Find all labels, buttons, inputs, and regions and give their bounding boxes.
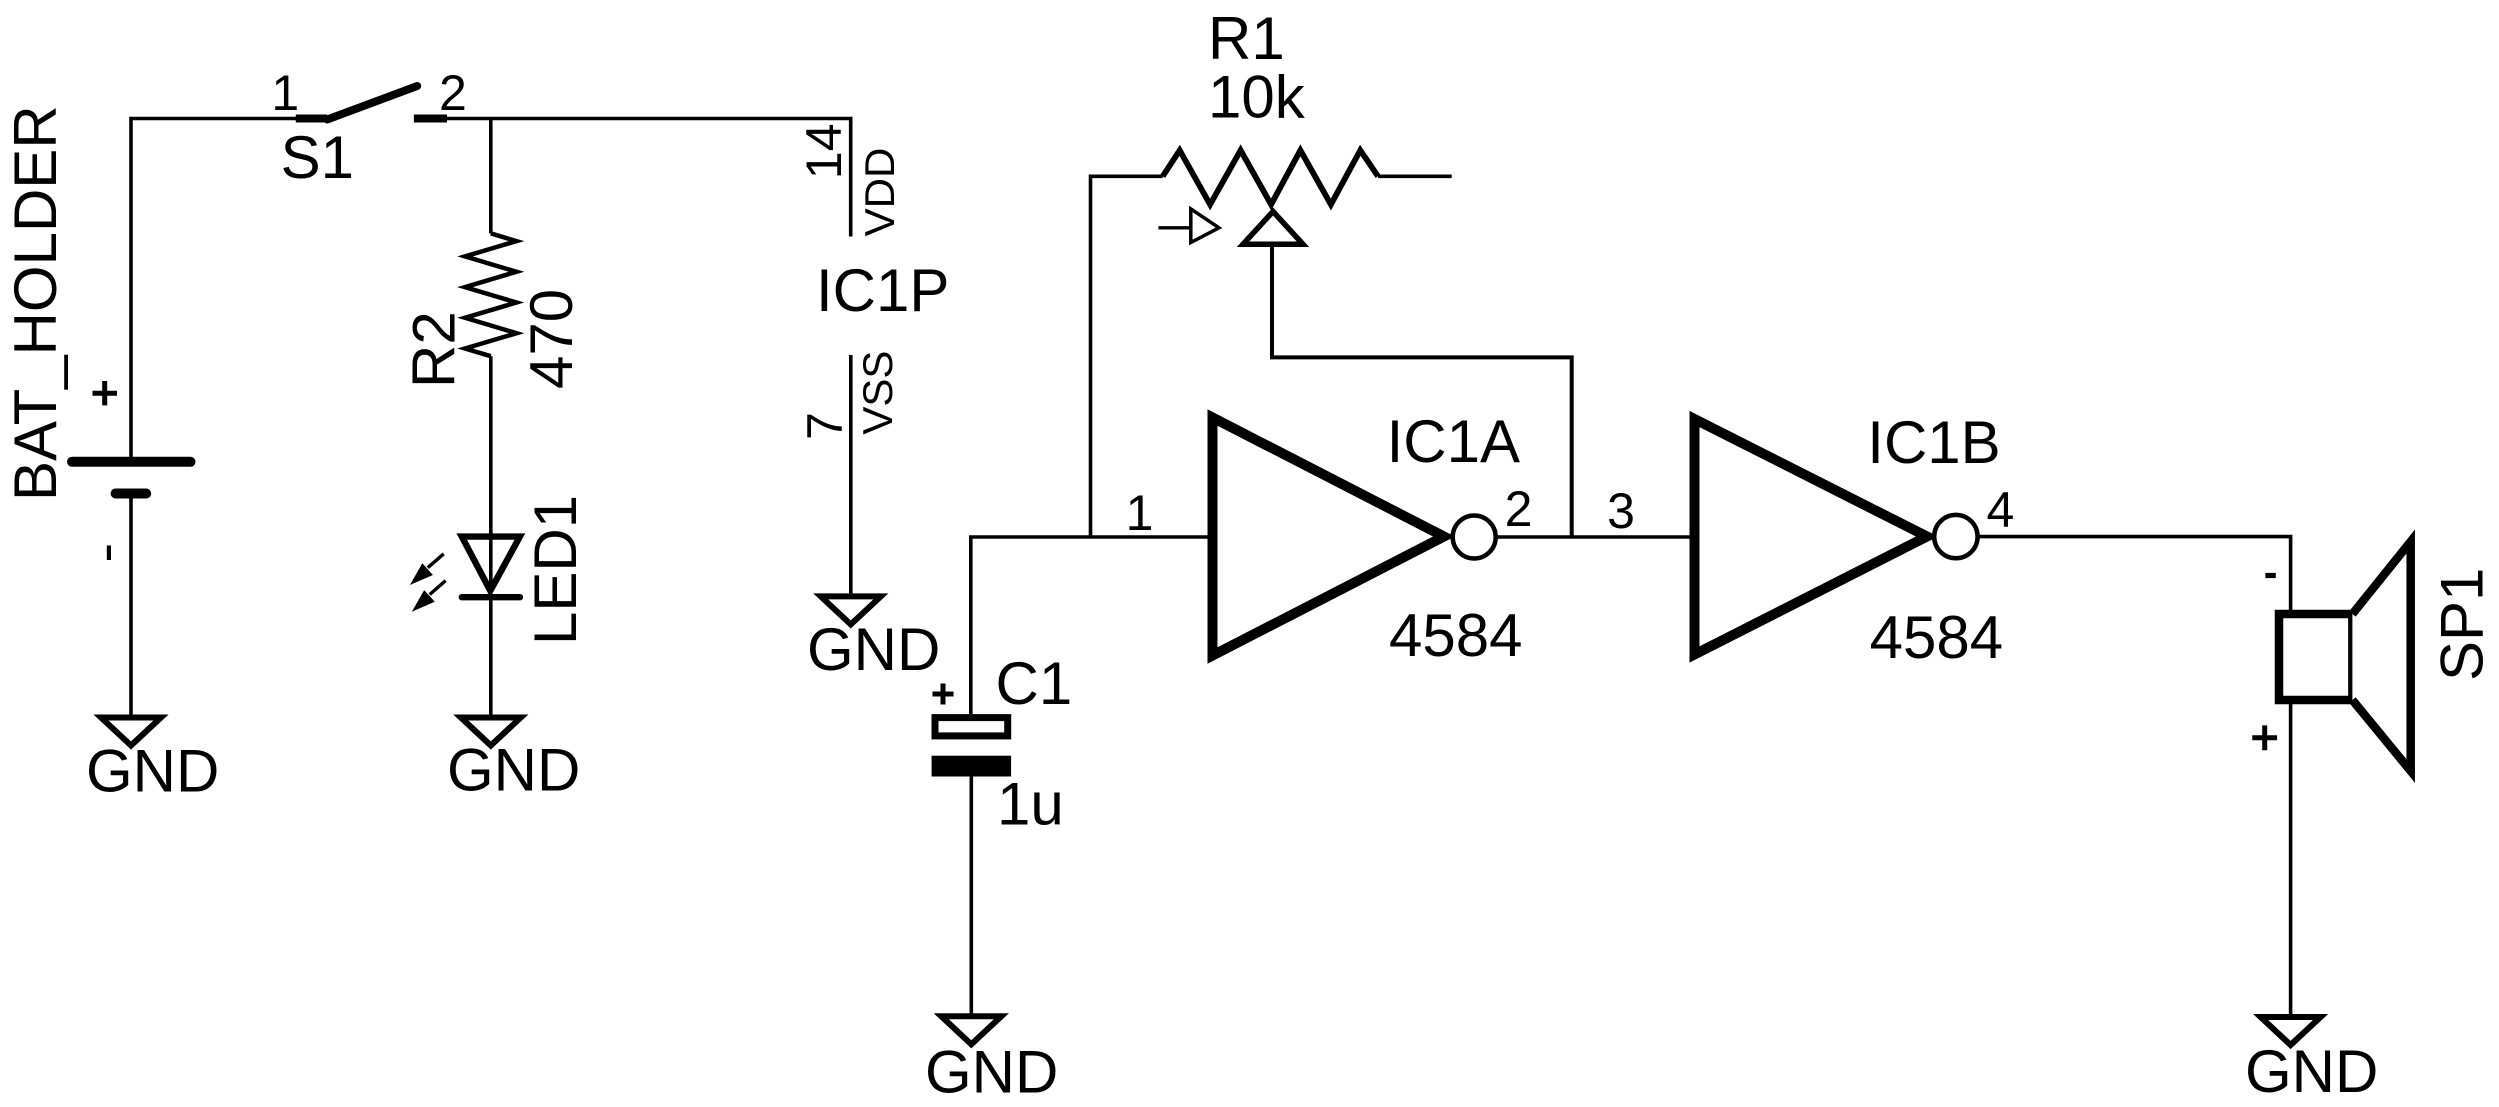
svg-text:3: 3: [1607, 483, 1635, 539]
inverter IC1A output bubble: [1453, 516, 1496, 559]
svg-text:GND: GND: [807, 616, 940, 683]
svg-text:IC1P: IC1P: [816, 257, 949, 324]
svg-text:1: 1: [271, 65, 299, 121]
potentiometer R1 wiper wire to gate output net: [1272, 246, 1572, 537]
capacitor C1 top plate: [935, 718, 1008, 736]
wire IC1A input net to C1: [971, 537, 1212, 714]
svg-text:IC1B: IC1B: [1867, 409, 2000, 476]
speaker SP1 plus marker: [2252, 725, 2277, 750]
svg-text:GND: GND: [447, 737, 580, 804]
svg-text:VSS: VSS: [854, 351, 901, 435]
ground GND (IC1P): [821, 596, 881, 624]
LED LED1 light arrow 1: [428, 554, 444, 568]
LED LED1 light arrow 2: [430, 581, 446, 595]
svg-text:10k: 10k: [1208, 64, 1306, 131]
svg-text:1u: 1u: [997, 770, 1064, 837]
svg-text:1: 1: [1126, 485, 1154, 541]
speaker SP1 body rectangle: [2279, 614, 2352, 700]
svg-text:GND: GND: [86, 738, 219, 805]
LED LED1 triangle: [462, 537, 520, 591]
svg-text:7: 7: [797, 412, 853, 440]
wire IC1A output to IC1B input: [1496, 535, 1692, 539]
potentiometer R1 zigzag: [1163, 150, 1378, 204]
wire IC1B output to speaker: [1978, 537, 2291, 611]
speaker SP1 minus marker: [2265, 573, 2275, 578]
inverter IC1A triangle: [1213, 418, 1445, 656]
wire R2 bottom lead to LED: [489, 356, 493, 715]
svg-text:2: 2: [1505, 481, 1533, 537]
svg-text:GND: GND: [925, 1039, 1058, 1106]
switch S1 lever: [327, 86, 417, 120]
battery minus marker (rotated hyphen): [107, 546, 111, 561]
svg-text:IC1A: IC1A: [1387, 408, 1520, 475]
svg-text:R2: R2: [401, 311, 468, 388]
svg-text:4584: 4584: [1870, 604, 2003, 671]
ground GND (SP1): [2261, 1017, 2321, 1045]
potentiometer R1 adjustment arrow: [1158, 226, 1191, 229]
ground GND (battery): [101, 718, 161, 746]
svg-text:4: 4: [1986, 482, 2014, 538]
switch S1 contact 1 stub: [296, 115, 327, 123]
wire C1 bottom lead: [969, 777, 973, 1014]
svg-text:2: 2: [439, 65, 467, 121]
svg-text:VDD: VDD: [856, 148, 903, 237]
svg-text:R1: R1: [1208, 5, 1285, 72]
battery plus marker: [93, 381, 118, 405]
wire R2 top lead: [489, 117, 493, 233]
svg-text:14: 14: [796, 123, 852, 179]
battery BAT_HOLDER bottom plate: [116, 489, 147, 499]
inverter IC1B triangle: [1695, 419, 1928, 655]
IC1P power symbol VSS pin 7: [849, 355, 853, 593]
speaker SP1 horn: [2352, 542, 2410, 772]
inverter IC1B output bubble: [1934, 515, 1977, 558]
svg-text:S1: S1: [281, 124, 354, 191]
ground GND (C1): [941, 1016, 1001, 1044]
switch S1 contact 2 stub: [414, 115, 447, 123]
svg-text:4584: 4584: [1389, 602, 1522, 669]
capacitor C1 bottom plate: [932, 756, 1012, 777]
ground GND (LED1): [461, 718, 521, 746]
potentiometer R1 right stub: [1378, 175, 1452, 179]
svg-text:GND: GND: [2245, 1038, 2378, 1105]
svg-text:470: 470: [518, 289, 585, 389]
svg-text:SP1: SP1: [2429, 568, 2496, 681]
resistor R2 zigzag: [465, 233, 517, 356]
svg-text:C1: C1: [996, 650, 1073, 717]
svg-text:BAT_HOLDER: BAT_HOLDER: [2, 105, 69, 501]
wire top rail from switch to IC1P VDD: [446, 119, 851, 237]
potentiometer R1 wiper triangle: [1243, 212, 1303, 245]
capacitor C1 plus marker: [933, 684, 954, 705]
battery BAT_HOLDER top plate: [72, 457, 191, 467]
wire battery negative lead: [129, 494, 133, 716]
LED LED1 cathode bar: [462, 594, 520, 600]
potentiometer R1 left leg: [1091, 176, 1163, 537]
wire speaker to ground: [2289, 700, 2293, 1014]
wire battery positive lead to top rail: [131, 119, 297, 458]
svg-text:LED1: LED1: [522, 495, 589, 645]
